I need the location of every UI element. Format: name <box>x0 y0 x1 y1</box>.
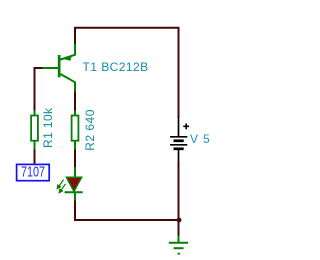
svg-text:R1 10k: R1 10k <box>41 107 55 148</box>
svg-text:7107: 7107 <box>21 163 45 180</box>
svg-text:R2 640: R2 640 <box>83 109 97 151</box>
svg-text:T1 BC212B: T1 BC212B <box>83 60 149 74</box>
svg-text:V 5: V 5 <box>190 132 210 146</box>
